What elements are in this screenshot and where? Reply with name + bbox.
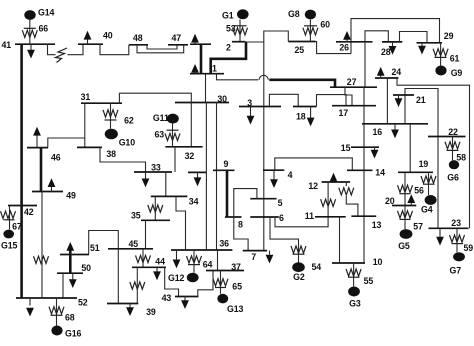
transformer 57 (398, 206, 424, 232)
transformer 65 (213, 271, 242, 294)
bus 42 (8, 206, 37, 218)
wire 50-52 (62, 273, 64, 298)
svg-text:65: 65 (232, 282, 242, 292)
generator G13 (217, 294, 243, 314)
wire 48-47 circuit 2 (147, 45, 177, 49)
load arrow bus 40 (up) (84, 31, 92, 44)
svg-text:41: 41 (2, 40, 12, 50)
bus 31 (81, 92, 122, 103)
svg-text:59: 59 (464, 243, 474, 253)
bus 19 (398, 159, 433, 172)
svg-text:12: 12 (308, 181, 318, 191)
wire 25-26 (316, 42, 352, 54)
load arrow bus 26 (up) (343, 31, 351, 42)
svg-text:G6: G6 (447, 172, 459, 182)
svg-text:11: 11 (305, 211, 314, 221)
svg-text:G4: G4 (421, 205, 433, 215)
wire 40-48 (100, 44, 129, 55)
wire 24-23 around right edge (397, 78, 470, 228)
svg-text:5: 5 (278, 198, 283, 208)
load arrow bus 20 (up) (407, 194, 415, 205)
bus 52 (16, 298, 88, 308)
svg-text:2: 2 (226, 43, 231, 53)
load arrow bus 28 (389, 42, 397, 55)
svg-text:29: 29 (444, 31, 454, 41)
wire 1-27 with hop over 2-3 (217, 74, 336, 88)
svg-text:46: 46 (51, 153, 61, 163)
svg-text:G9: G9 (451, 68, 463, 78)
svg-text:49: 49 (66, 190, 76, 200)
bus 26 (336, 42, 373, 53)
svg-text:G7: G7 (450, 265, 462, 275)
load arrow bus 46 (up) (33, 127, 41, 148)
wire 26-27 (364, 42, 366, 87)
bus 5 (250, 198, 282, 208)
svg-text:42: 42 (24, 207, 34, 217)
bus 20 (385, 196, 416, 206)
bus 39 (107, 304, 156, 318)
load arrow bus 50 (down) (69, 273, 77, 288)
generator G7 (450, 252, 465, 275)
bus 28 (381, 42, 402, 57)
load arrow bus 4 (270, 170, 278, 188)
transformer on wire 49-52 (34, 256, 49, 263)
svg-text:61: 61 (450, 54, 460, 64)
transformer 19-20 (398, 172, 413, 205)
load arrow bus 23 (436, 228, 444, 245)
load arrow bus 43 (181, 297, 189, 310)
bus 40 (78, 31, 113, 45)
svg-text:44: 44 (155, 257, 165, 267)
wire 4-14 (275, 158, 353, 170)
bus 1 (190, 64, 224, 74)
svg-text:32: 32 (185, 151, 195, 161)
svg-text:51: 51 (90, 243, 100, 253)
transformer 12-11 (321, 182, 336, 217)
wire 44-43 (165, 267, 179, 296)
svg-text:23: 23 (451, 218, 461, 228)
bus 44 (132, 266, 166, 268)
load arrow bus 52 (26, 298, 34, 317)
bus 2 (226, 42, 246, 53)
svg-text:G16: G16 (65, 329, 82, 339)
transformer 63 (155, 124, 181, 147)
bus 7 (243, 251, 267, 262)
wire 43-37 (198, 271, 213, 297)
bus 51 (60, 243, 100, 255)
svg-text:22: 22 (448, 127, 458, 137)
transformer 59 (450, 228, 474, 253)
wire 3-18 loop (269, 94, 298, 106)
wire 34-36 jog (176, 196, 186, 250)
load arrow bus 24 (up) (377, 67, 385, 78)
svg-text:1: 1 (212, 64, 217, 74)
svg-text:54: 54 (312, 262, 322, 272)
bus 32 (165, 147, 202, 161)
wire 6-11 (275, 217, 328, 227)
load arrow bus 16 (391, 124, 399, 139)
load arrow bus 21 (395, 95, 403, 107)
svg-text:G12: G12 (168, 273, 185, 283)
bus 41 (2, 40, 56, 50)
transformer 54 (291, 246, 321, 272)
svg-text:66: 66 (39, 24, 49, 34)
thick wire 47b-1 (200, 44, 203, 73)
svg-text:18: 18 (296, 112, 306, 122)
bus 25 (288, 42, 315, 56)
load arrow unlabeled tap (194, 172, 202, 186)
generator G4 (421, 195, 437, 215)
thick wire 2-1 (211, 43, 246, 74)
svg-text:34: 34 (189, 196, 199, 206)
svg-text:64: 64 (203, 260, 213, 270)
transformer 34-35 (148, 196, 163, 220)
svg-text:G15: G15 (1, 241, 18, 251)
svg-text:26: 26 (339, 43, 349, 53)
bus 9 (213, 159, 235, 170)
svg-text:48: 48 (133, 33, 143, 43)
svg-text:7: 7 (251, 252, 256, 262)
transformer 58 (445, 137, 466, 163)
transformer 66 (22, 20, 48, 45)
svg-text:G1: G1 (222, 10, 234, 20)
wire 49-52 (41, 192, 43, 299)
generator G11 (153, 113, 179, 124)
wire 30-36 left vertical (205, 103, 207, 251)
svg-text:52: 52 (78, 298, 88, 308)
generator G5 (398, 229, 412, 251)
bus 46 (27, 148, 61, 163)
svg-text:38: 38 (106, 149, 116, 159)
svg-text:16: 16 (373, 127, 383, 137)
wire 5-8-7 (234, 189, 257, 251)
bus 48 (129, 33, 148, 45)
svg-text:3: 3 (247, 98, 252, 108)
svg-text:60: 60 (320, 20, 330, 30)
bus 4 (263, 170, 293, 180)
generator G2 (292, 262, 305, 282)
bus 49 (32, 190, 76, 200)
bus 29 (417, 31, 454, 43)
load arrow bus 36 (173, 250, 181, 268)
load arrow bus 41 (27, 44, 35, 58)
transformer 67 (1, 206, 22, 232)
bus 14 (347, 168, 385, 178)
svg-text:39: 39 (146, 307, 156, 317)
transformer 56 (414, 172, 436, 195)
svg-text:G11: G11 (153, 113, 169, 123)
generator G9 (435, 66, 462, 79)
load arrow bus 7 (266, 251, 274, 264)
bus 12 (308, 181, 350, 191)
svg-text:50: 50 (81, 263, 91, 273)
svg-text:10: 10 (373, 257, 383, 267)
wire 41-40 with series zigzag (48, 44, 84, 55)
bus 35 (131, 211, 170, 221)
load arrow bus 47b (up) (191, 34, 199, 44)
bus 21 (393, 95, 426, 105)
load arrow bus 15 (371, 147, 379, 158)
bus 47b section (190, 43, 211, 45)
wire 16-21-22-23 (405, 89, 438, 229)
wire 31-32 (119, 93, 191, 147)
bus 30 (175, 94, 229, 104)
load arrow bus 49 (up) (48, 178, 56, 191)
svg-text:62: 62 (124, 116, 134, 126)
load arrow bus 29 (418, 43, 426, 55)
bus 45 (108, 239, 153, 249)
thick wire 46-49 (40, 148, 43, 192)
bus 3 (239, 98, 281, 108)
svg-text:8: 8 (238, 219, 243, 229)
thick wire 41-42-52 (20, 44, 23, 298)
svg-text:24: 24 (392, 67, 402, 77)
transformer 12-13 (339, 182, 358, 216)
generator G6 (447, 160, 459, 182)
transformer 53 (226, 20, 248, 42)
wire 27-17 jog (345, 87, 352, 106)
bus 8 (225, 217, 243, 229)
transformer 44-39 (130, 267, 145, 303)
wire 31-38 (84, 103, 86, 147)
series device zigzag on line 41-40 (56, 48, 68, 63)
wire 46-38 (48, 138, 85, 148)
svg-text:G8: G8 (288, 9, 300, 19)
svg-text:47: 47 (172, 33, 182, 43)
wire 2-3-4-5-6-7 vertical (263, 42, 265, 251)
generator G3 (348, 287, 361, 309)
wire 48-47 circuit 1 (137, 45, 184, 53)
wire 26-28 loop (365, 31, 388, 42)
svg-text:6: 6 (279, 213, 284, 223)
wire 32-33 (174, 147, 176, 172)
svg-text:63: 63 (155, 129, 165, 139)
svg-text:G3: G3 (349, 299, 361, 309)
thick wire 8-9 (226, 170, 229, 217)
svg-text:15: 15 (341, 143, 351, 153)
bus 34 (151, 196, 199, 206)
svg-text:31: 31 (81, 92, 91, 102)
load arrow bus 3 (247, 107, 255, 125)
transformer 64 (187, 250, 213, 273)
wire 38-33 jog (100, 147, 146, 172)
wire 11-10 (339, 217, 341, 263)
svg-text:45: 45 (129, 239, 139, 249)
main vertical 27-17-16-15-14-13-10 (363, 87, 365, 263)
svg-text:19: 19 (419, 159, 429, 169)
transformer 61 (433, 43, 459, 66)
bus 16 (362, 124, 428, 137)
svg-text:56: 56 (414, 186, 424, 196)
bus 15 (341, 143, 379, 153)
svg-text:20: 20 (385, 196, 395, 206)
wire 35-45 (145, 220, 147, 249)
svg-text:28: 28 (381, 47, 391, 57)
wire 26-29 top loop (351, 19, 440, 54)
wire 18-17 loop (317, 95, 347, 107)
wire 36-37 (217, 250, 219, 271)
svg-text:G10: G10 (119, 138, 136, 148)
svg-text:G13: G13 (227, 304, 244, 314)
wire 24-16 (386, 78, 388, 124)
bus 43 (162, 293, 199, 303)
load arrow bus 18 (307, 107, 315, 127)
bus 17 (332, 106, 376, 118)
generator G8 (288, 9, 316, 19)
bus 50 (57, 263, 91, 273)
wire 2-25 with hop over line 2-3 (246, 31, 289, 43)
svg-text:14: 14 (375, 168, 385, 178)
bus 37 (206, 262, 244, 272)
wire 28-29 loop (400, 32, 428, 43)
wire 33-34 (165, 172, 167, 196)
bus 23 (429, 218, 469, 228)
bus 33 (134, 163, 172, 173)
bus 38 (77, 147, 116, 159)
svg-text:21: 21 (416, 95, 426, 105)
transformer 45-44 (136, 249, 166, 267)
svg-text:30: 30 (217, 94, 227, 104)
svg-text:G5: G5 (398, 241, 410, 251)
svg-text:40: 40 (103, 31, 113, 41)
load arrow bus 33 (142, 172, 150, 187)
wire 30-9-36 vertical (216, 103, 218, 251)
bus 22 (428, 127, 466, 137)
bus 10 (332, 257, 382, 267)
svg-text:68: 68 (65, 312, 75, 322)
unlabeled tap bus (188, 171, 206, 173)
load arrow bus 12 (up) (330, 173, 338, 182)
svg-text:25: 25 (295, 45, 305, 55)
svg-text:57: 57 (413, 221, 423, 231)
wire 51-45-39 (89, 231, 119, 304)
generator G1 (222, 9, 249, 20)
transformer 60 (303, 20, 330, 42)
bus 6 (250, 213, 284, 223)
transformer 68 (49, 298, 75, 326)
svg-text:35: 35 (131, 211, 141, 221)
generator G16 (51, 326, 81, 339)
bus 36 (171, 238, 232, 250)
svg-text:9: 9 (224, 159, 229, 169)
svg-text:27: 27 (347, 77, 357, 87)
wire 6-54 (270, 217, 299, 246)
svg-text:G14: G14 (38, 8, 55, 18)
generator G14 (24, 8, 54, 20)
load arrow bus 51 (up thick) (66, 242, 74, 273)
wire 1-30 (205, 74, 207, 103)
generator G12 (168, 273, 199, 284)
load arrow bus 39 (126, 304, 134, 317)
bus 18 (293, 107, 317, 122)
svg-text:55: 55 (364, 276, 374, 286)
svg-text:33: 33 (151, 163, 161, 173)
svg-text:17: 17 (339, 108, 349, 118)
bus 13 (351, 216, 381, 230)
svg-text:36: 36 (219, 238, 229, 248)
bus 11 (305, 211, 346, 221)
transformer 55 (346, 263, 373, 287)
svg-text:58: 58 (456, 152, 466, 162)
generator G10 (105, 129, 136, 148)
load arrow bus 44 (153, 267, 161, 280)
svg-text:4: 4 (288, 170, 293, 180)
bus 24 (375, 67, 401, 78)
svg-text:37: 37 (231, 262, 241, 272)
load arrow bus 1 (up) (191, 64, 199, 74)
svg-text:53: 53 (226, 24, 236, 34)
bus 27 (330, 77, 377, 87)
bus 47 (168, 33, 188, 45)
generator G15 (1, 230, 18, 251)
svg-text:G2: G2 (293, 272, 305, 282)
svg-text:43: 43 (162, 293, 172, 303)
transformer 62 (103, 103, 134, 129)
wire 16-19 (409, 124, 411, 173)
svg-text:13: 13 (372, 220, 382, 230)
